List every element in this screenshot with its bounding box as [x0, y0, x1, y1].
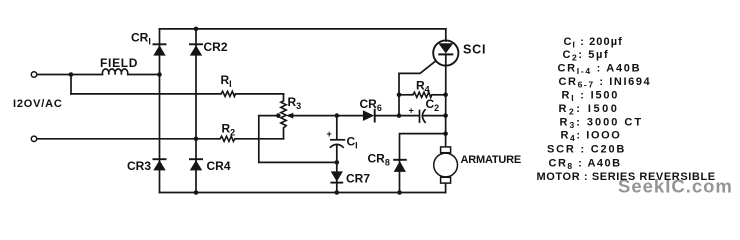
wire SCR cathode rail	[445, 54, 447, 147]
wire CR6 to gate node	[375, 115, 399, 117]
wire SCR anode stub	[445, 29, 447, 41]
svg-text:CR4: CR4	[207, 159, 231, 173]
svg-text:+: +	[409, 106, 414, 116]
svg-text:R3: 3000 CT: R3: 3000 CT	[560, 117, 644, 131]
wire R1 line right	[236, 93, 284, 95]
SCR U1	[433, 40, 458, 65]
svg-text:ARMATURE: ARMATURE	[461, 154, 522, 166]
svg-text:R2: R2	[222, 122, 236, 138]
svg-text:CR8 : A40B: CR8 : A40B	[549, 157, 622, 171]
resistor R4	[413, 92, 432, 97]
wire R4 left lead	[399, 94, 413, 96]
node bottom bus at second rail	[194, 190, 199, 195]
node R3 center tap	[276, 113, 281, 118]
wire field left lead	[71, 74, 103, 76]
potentiometer R3 wiper arrow	[286, 113, 294, 119]
svg-text:CR6: CR6	[360, 97, 382, 113]
wire SCR gate lead	[399, 61, 436, 116]
svg-text:R3: R3	[288, 95, 302, 111]
diode CR7	[330, 171, 343, 182]
wire lower AC terminal / R2 line left	[37, 138, 220, 140]
diode CR1	[153, 44, 167, 55]
terminal upper AC input	[31, 72, 36, 77]
node bottom bus at CR8 rail	[397, 190, 402, 195]
diode CR6	[363, 109, 375, 123]
diode CR8	[393, 160, 407, 172]
resistor R1	[221, 91, 236, 96]
node R4 right on cathode rail	[443, 93, 448, 98]
wire C2 left lead	[399, 115, 419, 117]
terminal lower AC input	[31, 136, 36, 141]
wire left bridge rail	[159, 29, 161, 193]
svg-text:CI : 200µf: CI : 200µf	[564, 36, 623, 50]
diode CR4	[189, 159, 203, 170]
inductor FIELD winding	[102, 69, 127, 75]
wire R3 wiper to CR6	[292, 115, 363, 117]
capacitor C1	[330, 140, 346, 148]
svg-text:RI: RI	[221, 73, 232, 89]
resistor R2	[220, 136, 235, 141]
wire R2 line right	[235, 138, 284, 140]
svg-text:C2: 5µf: C2: 5µf	[563, 49, 610, 63]
node C1 top	[335, 113, 340, 118]
svg-text:CRI: CRI	[131, 31, 151, 47]
wire R3 center tap to C1 bottom	[259, 116, 337, 163]
svg-text:R2: I500: R2: I500	[559, 103, 620, 117]
svg-text:RI : I500: RI : I500	[562, 89, 620, 103]
svg-text:R4: R4	[416, 78, 430, 94]
wire R4 right lead	[432, 94, 446, 96]
svg-text:CR8: CR8	[368, 152, 390, 168]
wire second bridge rail	[195, 29, 197, 193]
svg-text:FIELD: FIELD	[100, 56, 138, 70]
wire upper AC terminal lead	[37, 74, 71, 76]
node C2 left / CR6 out	[397, 113, 402, 118]
wire drop from upper terminal junction	[70, 75, 72, 94]
node field to left rail	[157, 72, 162, 77]
wire C1 bottom lead through CR7	[336, 145, 338, 192]
node bottom bus at C1 rail	[335, 190, 340, 195]
wire bottom bus	[160, 192, 446, 194]
wire CR8 branch	[400, 134, 446, 193]
svg-text:I2OV/AC: I2OV/AC	[13, 98, 63, 110]
wire top bus	[160, 28, 446, 30]
svg-text:R4: IOOO: R4: IOOO	[561, 130, 622, 144]
wire R1 line left	[71, 93, 221, 95]
capacitor C2	[420, 109, 426, 123]
diode CR2	[189, 44, 203, 55]
node gate R4 left	[397, 93, 402, 98]
wire C2 right lead	[423, 115, 445, 117]
wire C1 top lead	[336, 116, 338, 140]
svg-text:CI: CI	[347, 135, 358, 151]
potentiometer R3 body	[281, 101, 286, 128]
svg-text:+: +	[327, 129, 332, 139]
node C1 bottom tap	[335, 160, 340, 165]
node junction at upper terminal	[69, 72, 74, 77]
motor armature M1	[434, 147, 458, 183]
node CR8 branch on cathode rail	[443, 131, 448, 136]
svg-text:CR6-7 : INI694: CR6-7 : INI694	[559, 76, 652, 90]
svg-text:CR7: CR7	[346, 172, 370, 186]
wire R3 bottom lead	[283, 128, 285, 139]
node R2 line at second rail	[194, 137, 199, 142]
svg-text:CR3: CR3	[127, 159, 151, 173]
svg-text:C2: C2	[426, 97, 440, 113]
svg-text:SCR : C20B: SCR : C20B	[547, 144, 626, 156]
wire R3 top lead	[283, 94, 285, 101]
svg-text:MOTOR : SERIES REVERSIBLE: MOTOR : SERIES REVERSIBLE	[537, 171, 716, 183]
wire field right lead	[128, 74, 160, 76]
svg-text:CR2: CR2	[204, 40, 228, 54]
wire motor bottom stub	[445, 183, 447, 192]
diode CR3	[153, 159, 167, 170]
svg-text:CRI-4 : A40B: CRI-4 : A40B	[558, 63, 642, 77]
svg-text:SCI: SCI	[463, 43, 486, 57]
node C2 right on cathode rail	[443, 113, 448, 118]
node top bus at second rail	[194, 27, 199, 32]
